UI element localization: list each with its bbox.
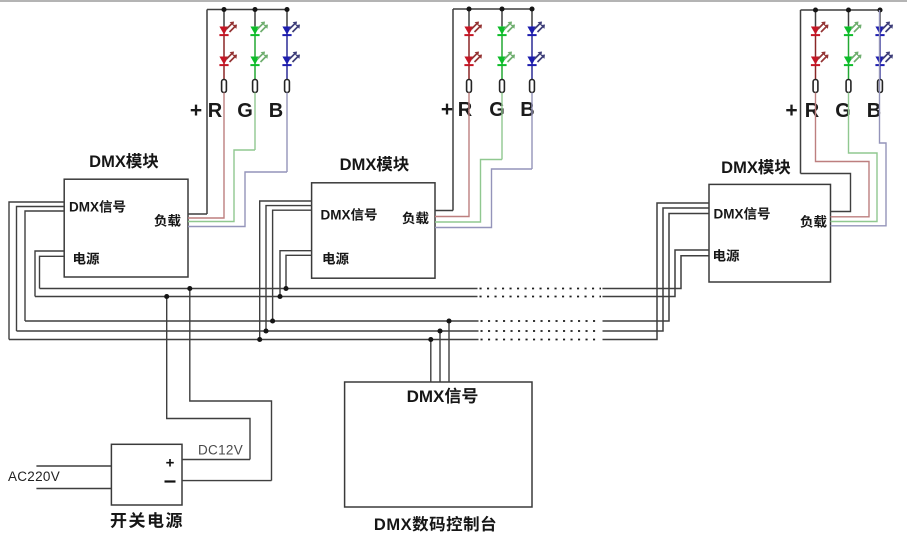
svg-text:DMX: DMX [340,156,377,174]
svg-text:DMX: DMX [321,208,351,223]
svg-text:+: + [785,99,797,122]
svg-text:DMX: DMX [714,207,744,222]
svg-text:AC220V: AC220V [8,469,60,484]
svg-text:+: + [441,98,453,121]
svg-text:DMX: DMX [89,153,126,171]
svg-text:R: R [208,100,223,122]
svg-text:G: G [237,100,253,122]
svg-text:+: + [190,99,202,122]
svg-text:+: + [166,455,175,472]
svg-text:DMX: DMX [374,516,412,534]
svg-text:DMX: DMX [721,159,758,177]
svg-text:DMX: DMX [69,200,99,215]
svg-text:R: R [458,99,473,121]
svg-text:DC12V: DC12V [198,443,243,458]
svg-text:R: R [805,100,820,122]
svg-text:DMX: DMX [407,387,445,406]
svg-text:B: B [269,100,283,122]
